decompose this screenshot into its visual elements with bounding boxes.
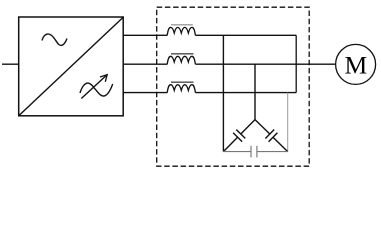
capacitor C1 left leg lower wire [223,137,237,151]
capacitor C3 bottom left wire [223,151,251,153]
capacitor C2 right leg lower wire [273,137,288,151]
C2 upper wire to apex [255,120,270,134]
input wire [2,63,19,65]
wire phase1 right segment [195,34,296,36]
inductor L2 [167,56,195,64]
wire phase1 left segment [123,34,167,36]
L2 core bar [171,53,194,55]
L3 core bar [171,81,194,83]
C1 plate lower [233,133,242,142]
capacitor C3 bottom right wire [257,151,288,153]
C3 right plate [256,146,258,158]
vertical wire from phase1 to delta left corner [222,35,224,151]
variable frequency sine [80,83,113,96]
wire phase2 to motor [195,63,335,65]
C1 plate upper [236,130,245,139]
wire phase3 right segment [195,92,296,94]
C2 plate upper [265,130,274,139]
arrowhead [100,75,107,82]
C3 left plate [250,146,252,158]
inductor L1 [167,27,195,35]
motor M circle [336,44,376,84]
L1 core bar [171,24,193,26]
vertical wire joining phase1 and phase3 [295,35,297,92]
wire phase2 left segment [123,63,167,65]
variable frequency arrow [81,75,107,99]
AC sine symbol [42,34,67,45]
svg-text:M: M [345,50,368,79]
converter diagonal [19,18,122,116]
dashed filter box [157,7,310,166]
C1 upper wire to apex [241,120,255,134]
vertical wire from phase3 to delta right corner [287,93,289,152]
vertical wire from phase2 to delta apex [254,64,256,119]
converter U1 [19,17,124,116]
inductor L3 [167,85,195,93]
wire phase3 left segment [123,92,167,94]
C2 plate lower [269,133,278,142]
